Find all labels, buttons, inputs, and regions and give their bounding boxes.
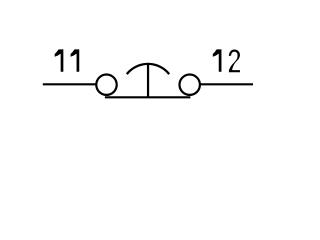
wire actuator stem bbox=[147, 64, 149, 97]
wire left lead (terminal 11) bbox=[43, 83, 97, 85]
terminal label 12 (digit 1) bbox=[213, 49, 222, 71]
switch actuator dome bbox=[127, 64, 169, 74]
node contact stud 11 (left circle) bbox=[96, 75, 116, 95]
wire movable contact bridge bar bbox=[105, 96, 190, 98]
terminal label 11 (second digit 1) bbox=[71, 49, 80, 71]
node contact stud 12 (right circle) bbox=[180, 75, 200, 95]
terminal label 12 (digit 2) bbox=[229, 49, 240, 72]
terminal label 11 (digit 1) bbox=[55, 49, 64, 71]
wire right lead (terminal 12) bbox=[200, 83, 253, 85]
